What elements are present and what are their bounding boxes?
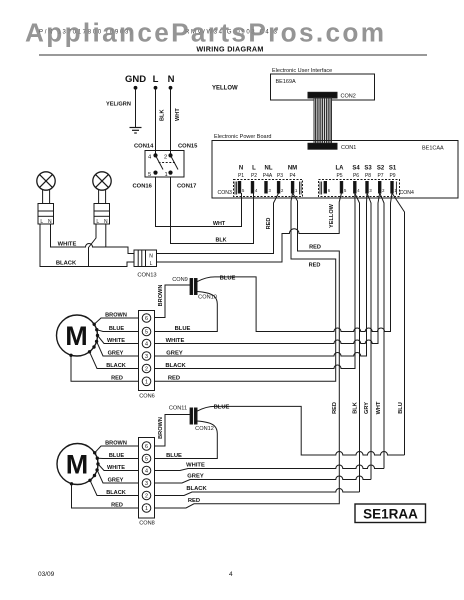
svg-text:RED: RED: [309, 263, 321, 269]
svg-text:Electronic User Interface: Electronic User Interface: [272, 68, 332, 74]
motor M1: [57, 315, 98, 356]
svg-text:WHT: WHT: [213, 221, 226, 227]
svg-text:P9: P9: [389, 173, 395, 179]
wire CON10 blue top to S1 partner: [197, 193, 392, 332]
svg-text:CON16: CON16: [133, 184, 153, 190]
wire M1 white row to S2 partner: [155, 193, 380, 344]
svg-text:BROWN: BROWN: [105, 312, 127, 318]
svg-text:S2: S2: [377, 166, 385, 172]
svg-text:NL: NL: [265, 166, 273, 172]
svg-text:BROWN: BROWN: [158, 417, 164, 439]
wire M1 red: [71, 355, 139, 381]
wire CON9 brown to CON6 pin6: [155, 285, 191, 318]
svg-text:6: 6: [145, 444, 148, 450]
lamp 2: [93, 172, 111, 204]
svg-text:BLK: BLK: [215, 238, 226, 244]
terminal GND: [134, 86, 138, 90]
switch contact 5: [153, 171, 157, 175]
svg-text:N: N: [48, 219, 52, 225]
svg-text:WHITE: WHITE: [107, 465, 125, 471]
svg-text:N: N: [104, 219, 108, 225]
svg-text:CON8: CON8: [139, 521, 155, 527]
svg-text:1: 1: [145, 506, 148, 512]
svg-text:CON4: CON4: [400, 190, 415, 196]
svg-text:CON17: CON17: [177, 184, 196, 190]
svg-text:L: L: [96, 219, 99, 225]
svg-text:NM: NM: [288, 166, 297, 172]
connector CON2 (black bar): [308, 92, 337, 98]
switch box door switch: [145, 151, 184, 178]
motor M1 terminals: [69, 323, 99, 357]
bus BLU vertical from S1: [392, 193, 405, 455]
svg-text:P2: P2: [251, 173, 257, 179]
wire M1 blue: [97, 330, 139, 332]
wire P3 to CON13 N (red): [157, 193, 279, 254]
svg-text:P1: P1: [238, 173, 244, 179]
ribbon cable CON2-CON1: [314, 98, 332, 144]
svg-text:BLK: BLK: [160, 110, 166, 122]
svg-text:CON2: CON2: [341, 94, 356, 100]
connector CON13: [134, 250, 157, 267]
bus GRY vertical from S3: [367, 193, 371, 480]
terminal N: [169, 86, 173, 90]
wire P4 red B to motor1: [155, 193, 336, 381]
svg-text:RED: RED: [111, 502, 123, 508]
wire switch5 to P1 (WHT): [156, 177, 242, 227]
wire switch1 to P2 (BLK): [171, 177, 254, 244]
svg-text:RED: RED: [188, 498, 200, 504]
wire LA to CON13 L (yellow): [157, 193, 342, 262]
svg-text:AppliancePartsPros.com: AppliancePartsPros.com: [25, 18, 384, 48]
svg-text:4: 4: [145, 469, 148, 475]
wire lamp2 right pin down to white: [105, 224, 107, 247]
header rule: [39, 54, 427, 56]
svg-text:2: 2: [145, 367, 148, 373]
svg-text:BLUE: BLUE: [214, 404, 230, 410]
lamp 2 socket: [94, 204, 110, 225]
svg-text:M: M: [66, 450, 89, 480]
wire M1 brown: [94, 318, 138, 324]
svg-text:RED: RED: [266, 218, 272, 230]
svg-text:YELLOW: YELLOW: [329, 203, 335, 228]
svg-text:RED: RED: [332, 402, 338, 414]
wire M2 white: [98, 464, 139, 471]
svg-text:RED: RED: [168, 376, 180, 382]
svg-text:WHT: WHT: [175, 108, 181, 121]
lamp 1: [37, 172, 55, 204]
switch blade 4-5: [156, 155, 164, 169]
svg-text:BLACK: BLACK: [56, 260, 77, 266]
connector CON3 (dashed): [234, 180, 303, 197]
svg-text:BLU: BLU: [398, 402, 404, 414]
svg-text:YELLOW: YELLOW: [212, 86, 238, 92]
svg-text:2: 2: [164, 155, 167, 161]
wire M2 grey: [97, 470, 138, 483]
svg-text:CON6: CON6: [139, 394, 155, 400]
svg-text:BROWN: BROWN: [105, 440, 127, 446]
svg-text:WHITE: WHITE: [58, 241, 77, 247]
svg-text:CON15: CON15: [178, 144, 198, 150]
svg-text:GREY: GREY: [108, 477, 124, 483]
svg-text:SE1RAA: SE1RAA: [363, 507, 418, 522]
svg-text:BLUE: BLUE: [166, 453, 182, 459]
svg-text:L: L: [153, 74, 159, 85]
svg-text:BLUE: BLUE: [109, 326, 124, 332]
svg-text:4: 4: [229, 571, 233, 578]
wire M2 blue: [97, 457, 138, 459]
svg-text:L: L: [150, 261, 153, 267]
wire M2 white row to WHT bus: [155, 465, 385, 471]
svg-text:GREY: GREY: [108, 350, 124, 356]
switch contact 4: [153, 153, 157, 157]
svg-text:CON12: CON12: [195, 426, 214, 432]
wire P4 red A to bus: [155, 193, 340, 508]
wire black lamps to CON13: [40, 224, 134, 267]
svg-text:P4: P4: [289, 173, 295, 179]
svg-text:5: 5: [145, 330, 148, 336]
svg-text:N: N: [168, 74, 175, 85]
svg-text:BLUE: BLUE: [175, 326, 191, 332]
svg-text:M: M: [65, 321, 88, 351]
wire CON12 blue bottom to CON8 pin5: [155, 421, 218, 459]
svg-text:CON9: CON9: [172, 277, 188, 283]
svg-text:LA: LA: [336, 166, 345, 172]
svg-text:3: 3: [145, 481, 148, 487]
svg-text:P7: P7: [377, 173, 383, 179]
svg-text:WHT: WHT: [376, 401, 382, 414]
capacitor connector CON9/CON10: [190, 279, 193, 295]
svg-text:5: 5: [145, 457, 148, 463]
wire M2 red: [72, 484, 139, 508]
svg-text:CON1: CON1: [341, 145, 356, 151]
svg-text:1: 1: [165, 172, 168, 178]
switch contact 2: [168, 153, 172, 157]
svg-text:YEL/GRN: YEL/GRN: [106, 102, 131, 108]
svg-text:5: 5: [148, 172, 151, 178]
svg-text:P4A: P4A: [263, 173, 273, 179]
svg-text:2: 2: [145, 494, 148, 500]
svg-text:BLACK: BLACK: [106, 363, 126, 369]
terminal L: [154, 86, 158, 90]
wire GND down: [135, 89, 137, 127]
svg-text:L: L: [40, 219, 43, 225]
svg-text:BE1CAA: BE1CAA: [422, 146, 444, 152]
svg-text:BE169A: BE169A: [276, 79, 297, 85]
svg-text:1: 1: [145, 379, 148, 385]
svg-text:N: N: [149, 253, 153, 259]
wire N down to switch: [170, 89, 172, 154]
svg-text:L: L: [252, 166, 256, 172]
svg-text:GREY: GREY: [166, 350, 183, 356]
wire CON11 brown to CON8 pin6: [155, 415, 191, 447]
svg-text:S4: S4: [352, 166, 360, 172]
svg-text:P6: P6: [353, 173, 359, 179]
wire M1 black row to S4 partner: [155, 193, 356, 369]
wire L down to switch: [155, 89, 157, 154]
wire M2 brown: [95, 446, 139, 453]
wire CON10 blue bottom to CON6 pin5: [155, 292, 218, 332]
svg-text:BLUE: BLUE: [109, 453, 124, 459]
svg-text:WHITE: WHITE: [107, 338, 125, 344]
svg-text:BLACK: BLACK: [186, 486, 207, 492]
wire M1 grey: [97, 341, 139, 356]
connector CON1 (black bar): [308, 143, 337, 149]
svg-text:WHITE: WHITE: [166, 338, 185, 344]
wire M1 white: [98, 336, 139, 344]
svg-text:CON11: CON11: [169, 406, 187, 412]
svg-text:RED: RED: [309, 245, 321, 251]
svg-text:S3: S3: [364, 166, 372, 172]
motor M2: [57, 444, 98, 485]
svg-text:CON14: CON14: [134, 144, 154, 150]
svg-text:GREY: GREY: [187, 474, 204, 480]
svg-text:BROWN: BROWN: [158, 285, 164, 307]
svg-text:P3: P3: [277, 173, 283, 179]
svg-text:S1: S1: [389, 166, 397, 172]
bus BLK vertical from S4: [355, 193, 360, 492]
wire M2 grey row to GRY bus: [155, 476, 372, 483]
svg-text:03/09: 03/09: [38, 571, 55, 578]
svg-text:N: N: [239, 166, 243, 172]
wire M1 black: [90, 352, 139, 369]
svg-text:BLK: BLK: [353, 402, 359, 414]
connector CON8: [139, 438, 155, 519]
bus WHT vertical from S2: [380, 193, 384, 469]
svg-text:P5: P5: [336, 173, 342, 179]
lamp 1 socket: [38, 204, 54, 225]
svg-text:RED: RED: [111, 376, 123, 382]
svg-text:CON13: CON13: [137, 273, 156, 279]
svg-text:CON3: CON3: [218, 190, 233, 196]
connector CON4 (dashed): [319, 180, 400, 197]
svg-text:Electronic Power Board: Electronic Power Board: [214, 134, 271, 140]
switch contact 1: [168, 171, 172, 175]
model box SE1RAA: [355, 504, 426, 523]
svg-text:P8: P8: [365, 173, 371, 179]
switch linkage dashed: [159, 162, 176, 164]
svg-text:BLACK: BLACK: [106, 490, 126, 496]
wire M2 black row to BLK bus: [155, 489, 360, 496]
svg-text:3: 3: [145, 354, 148, 360]
ground symbol: [130, 128, 142, 134]
svg-text:GND: GND: [125, 74, 146, 85]
svg-text:BLACK: BLACK: [165, 363, 186, 369]
motor M2 terminals: [70, 451, 100, 485]
connector CON6: [139, 311, 155, 391]
svg-text:GRY: GRY: [364, 402, 370, 414]
switch blade 2-1: [171, 155, 179, 169]
wire CON12 blue top to BLU bus: [197, 406, 405, 455]
wire white lamps to CON13: [51, 224, 135, 254]
wire lamp2 left pin diagonal to black: [89, 224, 97, 267]
svg-text:6: 6: [145, 316, 148, 322]
capacitor connector CON11/CON12: [190, 408, 193, 424]
wire M1 grey row to S3 partner: [155, 193, 368, 356]
wire M2 black: [90, 480, 139, 495]
svg-text:4: 4: [145, 342, 148, 348]
svg-text:WHITE: WHITE: [186, 463, 205, 469]
